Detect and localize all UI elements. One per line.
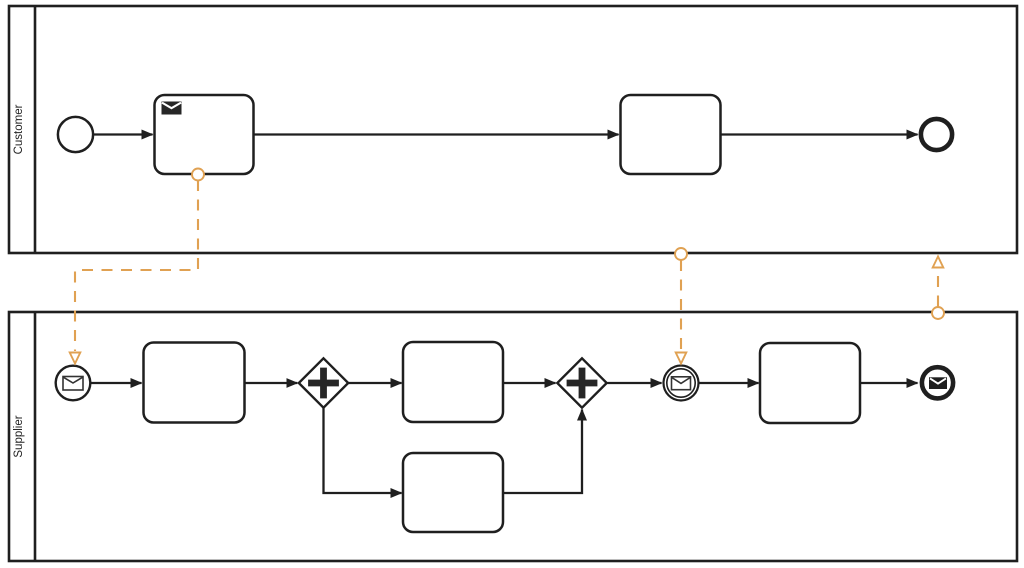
svg-text:Supplier: Supplier	[13, 415, 25, 457]
svg-text:Customer: Customer	[13, 104, 25, 154]
